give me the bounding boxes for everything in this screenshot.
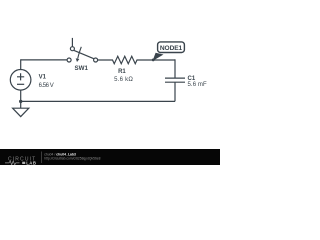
svg-text:NODE1: NODE1 bbox=[160, 45, 183, 52]
svg-text:LAB: LAB bbox=[26, 161, 36, 166]
svg-text:SW1: SW1 bbox=[74, 65, 88, 72]
svg-text:6.56 V: 6.56 V bbox=[39, 83, 54, 89]
svg-text:5.6 mF: 5.6 mF bbox=[188, 82, 208, 88]
svg-text:V1: V1 bbox=[39, 74, 47, 80]
svg-text:R1: R1 bbox=[118, 69, 126, 75]
svg-text:5.6 kΩ: 5.6 kΩ bbox=[114, 77, 133, 83]
svg-text:http://circuitlab.com/c/6258qp: http://circuitlab.com/c/6258qpdQk56e8 bbox=[44, 157, 100, 161]
